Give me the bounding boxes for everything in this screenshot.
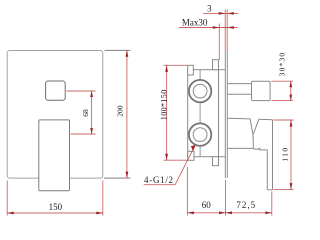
wall plate (side, edge-on) — [224, 50, 226, 178]
diverter knob shaft (side) — [228, 83, 252, 85]
svg-text:110: 110 — [280, 147, 289, 162]
svg-text:100*150: 100*150 — [160, 89, 169, 120]
bottom-right tab — [213, 157, 219, 166]
svg-text:Max30: Max30 — [182, 18, 208, 28]
wall plate (front) — [7, 51, 103, 179]
lever handle (side) — [228, 118, 273, 190]
dim 30*30 (knob) — [272, 81, 294, 100]
dim 150 — [7, 181, 103, 216]
dims 60 and 72,5 — [187, 167, 271, 216]
diverter knob (side) — [252, 81, 271, 100]
connector body to plate bottom — [219, 156, 226, 158]
svg-text:68: 68 — [81, 109, 90, 117]
dim 110 (lever) — [274, 120, 294, 190]
dim 200 — [105, 49, 131, 51]
svg-text:60: 60 — [202, 200, 212, 210]
upper valve circle — [189, 80, 211, 102]
lower valve circle — [189, 123, 211, 145]
mounting lug bottom-left — [188, 151, 194, 160]
svg-text:30*30: 30*30 — [278, 52, 287, 77]
body centre face line — [199, 70, 201, 157]
svg-text:3: 3 — [207, 4, 212, 14]
dim 68 — [67, 91, 96, 134]
valve body (side) — [188, 70, 219, 157]
svg-text:72,5: 72,5 — [236, 200, 256, 210]
connector body to plate top — [219, 69, 226, 71]
svg-text:4-G1/2: 4-G1/2 — [144, 175, 174, 185]
diverter button (front) — [46, 81, 66, 100]
dim 100*150 (mounting) — [164, 65, 188, 160]
svg-text:150: 150 — [49, 202, 63, 212]
svg-text:200: 200 — [115, 105, 124, 117]
handle (front) — [39, 120, 70, 191]
mounting lug top-left — [188, 65, 194, 75]
top-right block — [213, 60, 219, 70]
